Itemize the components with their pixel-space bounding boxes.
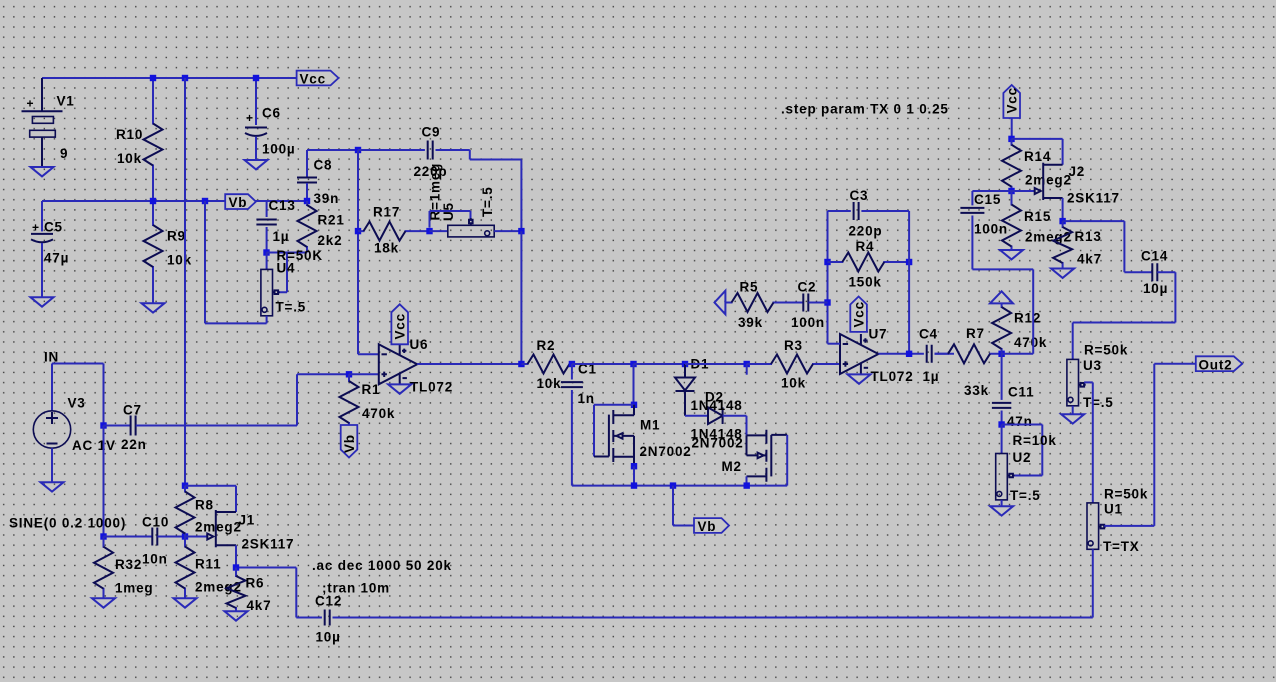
- svg-text:U7: U7: [869, 327, 888, 342]
- junction rail/R3 stub: [744, 361, 750, 367]
- svg-text:1µ: 1µ: [273, 229, 290, 244]
- voltage source V3: [51, 364, 53, 412]
- junction U5 right: [518, 228, 524, 234]
- svg-text:47n: 47n: [1007, 414, 1033, 429]
- ground below R9: [142, 303, 165, 312]
- junction U6 output: [518, 361, 524, 367]
- wire M1 drain riser: [633, 364, 635, 405]
- junction bottom rail/Vb branch: [670, 482, 676, 488]
- wire C1 top lead: [571, 364, 573, 380]
- junction R17 left: [355, 228, 361, 234]
- svg-text:M2: M2: [722, 459, 742, 474]
- svg-text:AC 1V: AC 1V: [72, 438, 116, 453]
- svg-text:10k: 10k: [117, 151, 142, 166]
- svg-text:C3: C3: [850, 188, 869, 203]
- wire U4 wiper loop: [278, 253, 287, 293]
- ground above R12 (rotated): [990, 291, 1013, 303]
- junction R4 left: [824, 259, 830, 265]
- resistor R4: [828, 261, 910, 263]
- junction U7 output: [906, 351, 912, 357]
- potentiometer U5: [448, 225, 494, 237]
- potentiometer U4: [261, 269, 273, 315]
- wire C8 to feedback node: [307, 149, 358, 151]
- junction bottom rail/M1 source: [631, 482, 637, 488]
- wire U2 wiper loop: [1002, 425, 1043, 476]
- svg-text:T=.5: T=.5: [1083, 395, 1114, 410]
- capacitor C7: [131, 416, 136, 436]
- wire C6 top lead: [255, 78, 257, 125]
- wire U3 wiper to U1: [1084, 382, 1093, 503]
- wire stub below junction: [746, 364, 748, 375]
- junction C2 right node: [824, 299, 830, 305]
- jfet J2 (2SK117): [1042, 163, 1044, 200]
- ground below V1: [31, 167, 54, 176]
- wire IN corner: [52, 364, 104, 426]
- svg-text:C15: C15: [974, 192, 1001, 207]
- junction bottom rail/M2: [744, 482, 750, 488]
- wire C13 bottom lead: [266, 227, 268, 253]
- wire C7 riser to noninv input: [297, 374, 349, 425]
- svg-text:100n: 100n: [974, 222, 1008, 237]
- wire M1 source to rail: [633, 466, 635, 485]
- junction top rail / C6: [253, 75, 259, 81]
- svg-text:R1: R1: [362, 382, 381, 397]
- resistor R2: [521, 363, 572, 365]
- resistor R17: [358, 230, 430, 232]
- svg-text:Vb: Vb: [229, 195, 248, 210]
- resistor R6: [235, 568, 237, 612]
- wire Vb row: [42, 200, 307, 202]
- wire clipping bottom rail: [572, 485, 787, 487]
- op-amp U7: [840, 334, 878, 374]
- svg-text:R10: R10: [116, 127, 143, 142]
- junction top rail / R10: [150, 75, 156, 81]
- junction R32/C10: [100, 533, 106, 539]
- svg-text:R9: R9: [167, 229, 186, 244]
- svg-text:R14: R14: [1024, 149, 1051, 164]
- svg-text:1n: 1n: [578, 391, 595, 406]
- svg-text:R21: R21: [318, 213, 345, 228]
- svg-text:R17: R17: [373, 205, 400, 220]
- wire J1 source lead: [235, 545, 237, 567]
- wire U4 bottom to Vb junction: [205, 201, 267, 323]
- wire C3 right lead: [861, 210, 909, 212]
- svg-text:R8: R8: [195, 498, 214, 513]
- svg-text:2SK117: 2SK117: [242, 537, 295, 552]
- junction feedback top: [355, 147, 361, 153]
- wire J2 gate lead: [1012, 190, 1035, 192]
- svg-text:U3: U3: [1083, 358, 1102, 373]
- resistor R13: [1062, 221, 1064, 268]
- junction U6 noninv/R1: [346, 371, 352, 377]
- capacitor C3: [854, 202, 859, 220]
- junction U5 left: [426, 228, 432, 234]
- flag Out2: [1196, 356, 1243, 371]
- svg-text:Out2: Out2: [1199, 358, 1233, 373]
- svg-text:V1: V1: [57, 94, 75, 109]
- wire U5 right pin: [494, 230, 521, 232]
- wire rail M1 to D1: [634, 363, 686, 365]
- wire C11 bottom lead: [1001, 411, 1003, 425]
- svg-text:TL072: TL072: [410, 380, 453, 395]
- wire U7 output: [878, 353, 924, 355]
- junction C8/R21 node: [304, 198, 310, 204]
- svg-text:100n: 100n: [791, 315, 825, 330]
- wire rail R2 to M1: [572, 363, 634, 365]
- junction R7/R12/C11: [998, 351, 1004, 357]
- ground below V3: [41, 482, 64, 491]
- wire C13 top lead: [266, 201, 268, 217]
- potentiometer U1: [1087, 503, 1099, 549]
- resistor R1: [348, 374, 350, 425]
- wire inverting feedback vertical: [357, 150, 359, 354]
- svg-text:R12: R12: [1014, 311, 1041, 326]
- junction Vcc/R14: [1008, 136, 1014, 142]
- wire C8 bottom lead: [306, 183, 308, 201]
- wire U3 bottom lead: [1072, 406, 1074, 414]
- svg-text:39k: 39k: [738, 315, 763, 330]
- svg-text:10µ: 10µ: [316, 630, 341, 645]
- svg-text:C11: C11: [1008, 385, 1034, 400]
- potentiometer U3: [1067, 359, 1079, 405]
- junction M1 source: [631, 463, 637, 469]
- capacitor C12: [325, 610, 330, 626]
- svg-text:Vb: Vb: [698, 519, 717, 534]
- svg-text:39n: 39n: [314, 191, 340, 206]
- svg-text:4k7: 4k7: [247, 598, 272, 613]
- svg-text:9: 9: [60, 146, 68, 161]
- svg-text:R11: R11: [195, 557, 221, 572]
- svg-text:R15: R15: [1024, 209, 1051, 224]
- wire Vcc feed vertical: [184, 78, 186, 486]
- capacitor C4: [927, 345, 932, 363]
- wire Vcc flag lead: [1011, 118, 1013, 139]
- junction R8/R11/J1 gate: [182, 533, 188, 539]
- junction C13 bottom node: [263, 249, 269, 255]
- svg-text:100µ: 100µ: [262, 142, 296, 157]
- wire U6 inverting input: [358, 353, 379, 355]
- svg-text:.step param TX 0 1 0.25: .step param TX 0 1 0.25: [781, 102, 949, 117]
- svg-text:33k: 33k: [964, 383, 989, 398]
- wire U6 output: [417, 363, 521, 365]
- mosfet M1 (2N7002): [594, 456, 609, 458]
- ground below U3: [1061, 414, 1084, 423]
- svg-text:Vb: Vb: [342, 434, 357, 453]
- svg-text:10k: 10k: [167, 253, 192, 268]
- capacitor C15: [960, 208, 984, 213]
- flag Vb (clipping rail): [694, 518, 729, 533]
- svg-text:TL072: TL072: [871, 369, 914, 384]
- op-amp U6: [379, 344, 417, 384]
- wire J1 gate lead: [185, 536, 207, 538]
- wire J2 source lead: [1062, 198, 1064, 221]
- flag Vcc (top left): [297, 71, 339, 86]
- svg-text:10k: 10k: [537, 376, 562, 391]
- capacitor C6 (polarized): [245, 128, 267, 136]
- capacitor C1: [561, 382, 583, 387]
- capacitor C2: [803, 294, 808, 312]
- wire U5 node down to opamp output: [520, 231, 522, 364]
- svg-text:220p: 220p: [849, 224, 883, 239]
- svg-text:470k: 470k: [362, 406, 395, 421]
- flag Vcc above U6: [391, 304, 408, 344]
- wire C10 right lead: [158, 536, 186, 538]
- wire U7 feedback vertical: [827, 211, 829, 344]
- junction C11 bottom: [998, 421, 1004, 427]
- wire M2 gate to bottom rail: [786, 435, 788, 486]
- ground below C5: [31, 297, 54, 306]
- svg-text:+: +: [27, 97, 34, 111]
- wire Vcc to J2 drain: [1012, 139, 1063, 165]
- junction rail/D1: [682, 361, 688, 367]
- ground below R13: [1051, 269, 1074, 278]
- svg-text:M1: M1: [640, 418, 660, 433]
- svg-text:18k: 18k: [374, 241, 399, 256]
- flag Vb (bias row): [225, 194, 256, 209]
- svg-text:470k: 470k: [1014, 335, 1047, 350]
- svg-text:1meg: 1meg: [115, 581, 153, 596]
- junction R8 top: [182, 483, 188, 489]
- svg-text:10k: 10k: [781, 376, 806, 391]
- resistor R5: [732, 302, 804, 304]
- svg-text:+: +: [32, 221, 39, 235]
- svg-text:R13: R13: [1075, 229, 1102, 244]
- svg-text:2meg2: 2meg2: [1025, 230, 1072, 245]
- wire C3 left lead: [828, 210, 851, 212]
- svg-text:+: +: [246, 111, 253, 125]
- mosfet M2 (2N7002): [747, 434, 767, 436]
- wire J2 source to C14: [1063, 221, 1153, 272]
- wire U1 wiper to Out2: [1104, 364, 1196, 526]
- wire U4 top pin: [266, 253, 268, 270]
- svg-text:U4: U4: [277, 261, 296, 276]
- wire Vcc rail: [42, 77, 297, 79]
- ground below C6: [245, 160, 268, 169]
- svg-text:C7: C7: [123, 403, 142, 418]
- svg-text:C12: C12: [315, 594, 342, 609]
- wire U6 noninv input: [349, 373, 379, 375]
- resistor R3: [747, 363, 840, 365]
- svg-text:Vcc: Vcc: [300, 72, 326, 87]
- svg-text:47µ: 47µ: [44, 251, 69, 266]
- svg-text:10µ: 10µ: [1143, 281, 1168, 296]
- wire C7 left lead: [104, 425, 131, 427]
- resistor R15: [1011, 191, 1013, 250]
- svg-text:C4: C4: [919, 327, 938, 342]
- battery V1: [22, 78, 63, 167]
- svg-text:2N7002: 2N7002: [640, 444, 692, 459]
- svg-text:2N7002: 2N7002: [692, 436, 744, 451]
- junction V3/C7: [100, 422, 106, 428]
- svg-text:J1: J1: [239, 513, 256, 528]
- resistor R10: [152, 78, 154, 201]
- ground below R6: [225, 611, 248, 620]
- svg-text:Vcc: Vcc: [393, 313, 408, 339]
- resistor R21: [306, 201, 308, 253]
- svg-text:J2: J2: [1069, 164, 1086, 179]
- wire C10 left lead: [104, 536, 153, 538]
- ground below U7: [848, 374, 871, 383]
- ground below R11: [174, 598, 197, 607]
- wire C15 bottom loop: [972, 216, 1033, 354]
- wire U7 inv input: [828, 343, 841, 345]
- wire D2 to M2 gate node: [723, 416, 747, 436]
- junction Vb row / U4 branch: [202, 198, 208, 204]
- wire C15 top lead: [972, 191, 1011, 205]
- wire Vb branch: [673, 486, 694, 526]
- junction R4 right: [906, 259, 912, 265]
- wire U1 bottom to C12 rail: [333, 549, 1093, 617]
- svg-text:2k2: 2k2: [318, 233, 343, 248]
- svg-text:1N4148: 1N4148: [691, 398, 743, 413]
- wire C5 top lead: [41, 201, 43, 231]
- junction rail/M1: [630, 361, 636, 367]
- junction J2 source: [1059, 218, 1065, 224]
- flag Vb below R1: [341, 425, 358, 458]
- resistor R7: [935, 353, 1002, 355]
- capacitor C10: [152, 528, 157, 546]
- jfet J1 (2SK117): [215, 510, 217, 547]
- ground below U6: [388, 384, 411, 393]
- capacitor C9: [428, 141, 433, 160]
- svg-text:T=.5: T=.5: [276, 300, 307, 315]
- wire D1 to D2: [685, 415, 708, 417]
- svg-text:R7: R7: [966, 326, 985, 341]
- wire U5 left pin: [430, 230, 448, 232]
- wire rail D1 to R3 node: [685, 363, 747, 365]
- wire C14 to U3: [1073, 272, 1176, 359]
- wire C2 right lead: [809, 302, 828, 304]
- flag Vcc (top right): [1003, 85, 1020, 118]
- wire C12 left to J1 source: [236, 568, 322, 618]
- svg-text:R=10k: R=10k: [1013, 433, 1057, 448]
- junction Vb row / R9: [150, 198, 156, 204]
- wire node to R21 bottom: [267, 252, 308, 254]
- wire V1 top lead: [41, 78, 43, 111]
- svg-text:R32: R32: [115, 557, 142, 572]
- svg-text:1µ: 1µ: [923, 369, 940, 384]
- wire V3 node down: [103, 426, 105, 537]
- wire C7 to U6 riser: [136, 425, 297, 427]
- resistor R8: [184, 486, 186, 537]
- wire C11 top lead: [1001, 354, 1003, 400]
- junction J1 source/R6: [233, 564, 239, 570]
- wire C5 bottom lead: [41, 243, 43, 297]
- svg-text:C6: C6: [262, 106, 281, 121]
- svg-text:2meg2: 2meg2: [195, 520, 242, 535]
- svg-text:V3: V3: [68, 396, 86, 411]
- ground below U2: [990, 506, 1013, 515]
- junction top rail / long vertical: [182, 75, 188, 81]
- capacitor C14: [1152, 263, 1157, 281]
- svg-text:IN: IN: [44, 350, 59, 365]
- svg-text:C8: C8: [314, 158, 333, 173]
- resistor R11: [184, 537, 186, 599]
- ground left of R5 (rotated): [715, 291, 732, 315]
- resistor R9: [152, 201, 154, 303]
- svg-text:Vcc: Vcc: [851, 301, 866, 327]
- wire feedback node to C9: [358, 149, 425, 151]
- diode D1 (1N4148): [684, 364, 686, 378]
- svg-text:T=TX: T=TX: [1103, 539, 1140, 554]
- wire C1 bottom lead: [571, 390, 573, 486]
- svg-text:C5: C5: [44, 220, 63, 235]
- svg-text:T=.5: T=.5: [480, 186, 495, 217]
- junction R14/R15/J2 gate: [1008, 188, 1014, 194]
- svg-text:150k: 150k: [849, 275, 882, 290]
- capacitor C11: [992, 403, 1011, 408]
- wire C6 bottom lead: [255, 137, 257, 160]
- svg-text:R5: R5: [740, 280, 759, 295]
- svg-text:R2: R2: [537, 338, 556, 353]
- wire R8 node to J1 drain: [185, 486, 236, 512]
- ground below R15: [1000, 250, 1023, 259]
- svg-text:U6: U6: [410, 337, 429, 352]
- svg-text:.ac dec 1000 50 20k: .ac dec 1000 50 20k: [312, 558, 452, 573]
- resistor R14: [1011, 139, 1013, 191]
- svg-text:22n: 22n: [121, 437, 147, 452]
- wire M1 gate tie: [594, 405, 634, 457]
- wire U7 output vertical: [908, 211, 910, 354]
- svg-text:SINE(0 0.2 1000): SINE(0 0.2 1000): [9, 516, 126, 531]
- wire U2 bottom lead: [1001, 500, 1003, 506]
- resistor R32: [103, 537, 105, 599]
- capacitor C13: [256, 220, 276, 225]
- wire C9 right with jog: [436, 150, 522, 231]
- svg-text:C14: C14: [1141, 249, 1168, 264]
- svg-text:4k7: 4k7: [1077, 252, 1102, 267]
- capacitor C8: [297, 178, 317, 183]
- svg-text:R3: R3: [784, 338, 803, 353]
- resistor R12: [1001, 303, 1003, 353]
- junction M1 drain: [631, 402, 637, 408]
- svg-text:;tran 10m: ;tran 10m: [322, 581, 390, 596]
- svg-text:T=.5: T=.5: [1010, 488, 1041, 503]
- ground below R32: [92, 598, 115, 607]
- svg-text:R6: R6: [246, 576, 265, 591]
- svg-text:C9: C9: [422, 125, 441, 140]
- wire C4 to R7: [935, 353, 955, 355]
- svg-text:R=50k: R=50k: [1104, 487, 1148, 502]
- wire M2 drain pin: [746, 476, 748, 485]
- svg-text:C10: C10: [142, 515, 169, 530]
- wire U2 top pin: [1001, 425, 1003, 454]
- svg-text:10n: 10n: [142, 552, 168, 567]
- potentiometer U2: [996, 454, 1008, 500]
- svg-text:C2: C2: [798, 280, 817, 295]
- svg-text:R=50k: R=50k: [1084, 343, 1128, 358]
- svg-text:U2: U2: [1013, 450, 1032, 465]
- svg-text:2SK117: 2SK117: [1067, 191, 1120, 206]
- flag Vcc above U7: [850, 297, 867, 332]
- svg-text:C13: C13: [269, 198, 296, 213]
- diode D2 (1N4148): [708, 407, 723, 424]
- wire C8 top lead: [306, 150, 308, 177]
- svg-text:Vcc: Vcc: [1004, 87, 1019, 113]
- svg-text:U1: U1: [1104, 502, 1123, 517]
- junction R2/C1: [569, 361, 575, 367]
- svg-text:R4: R4: [856, 239, 875, 254]
- capacitor C5 (polarized): [31, 234, 53, 242]
- wire U5 wiper loop: [430, 211, 471, 228]
- svg-text:2meg2: 2meg2: [1025, 173, 1072, 188]
